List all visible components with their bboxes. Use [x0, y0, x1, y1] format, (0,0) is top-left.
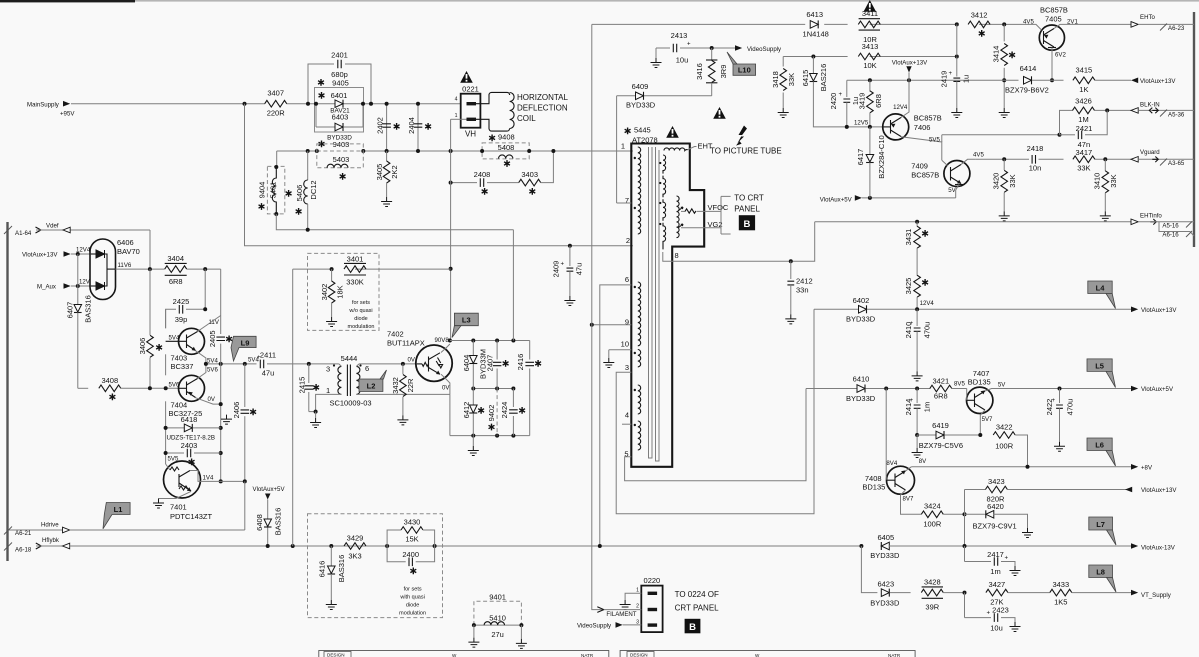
svg-text:2421: 2421: [1076, 124, 1093, 133]
svg-text:M_Aux: M_Aux: [37, 284, 56, 291]
svg-text:3: 3: [326, 365, 330, 374]
svg-text:2405: 2405: [208, 330, 217, 347]
svg-text:4V5: 4V5: [973, 152, 984, 159]
capacitor 2425 39p: [166, 269, 220, 328]
inductor 5406 / DC12: [295, 151, 318, 230]
svg-text:2406: 2406: [232, 402, 241, 419]
svg-text:6413: 6413: [806, 10, 823, 19]
node Hdrive input: [4, 521, 245, 537]
diode 6412: [462, 389, 484, 436]
svg-text:2409: 2409: [552, 261, 561, 278]
svg-text:1: 1: [455, 113, 458, 119]
svg-text:VH: VH: [465, 130, 476, 139]
svg-text:220R: 220R: [267, 109, 286, 118]
ground snubber: [468, 436, 479, 456]
wire flyback node vertical (VH pin1 to 7402 collector): [450, 119, 452, 340]
resistor 3410 33K: [1093, 159, 1119, 221]
svg-text:BZX79-B6V2: BZX79-B6V2: [1005, 86, 1049, 95]
resistor 3431: [904, 222, 928, 276]
node VlotAux-13V out: [1131, 543, 1176, 551]
capacitor 2402: [376, 104, 400, 151]
svg-text:47n: 47n: [1078, 140, 1091, 149]
capacitor 2415: [298, 362, 320, 412]
svg-text:DESIGN: DESIGN: [630, 653, 648, 657]
svg-text:BLK-IN: BLK-IN: [1140, 102, 1160, 109]
wire x=244.8 vertical to Hdrive: [244, 481, 246, 530]
resistor 3424 100R: [921, 502, 964, 529]
svg-text:33K: 33K: [787, 73, 796, 86]
svg-text:10: 10: [621, 340, 629, 349]
wire snubber top rail: [450, 340, 530, 342]
svg-text:2417: 2417: [987, 550, 1004, 559]
svg-text:3414: 3414: [992, 46, 1001, 63]
svg-text:VideoSupply: VideoSupply: [577, 623, 612, 630]
flag L10: [727, 52, 756, 75]
svg-text:+8V: +8V: [1141, 465, 1153, 472]
svg-text:Hdrive: Hdrive: [41, 521, 59, 528]
svg-text:2K2: 2K2: [390, 165, 399, 178]
svg-text:VlotAux+5V: VlotAux+5V: [820, 196, 853, 203]
svg-text:FILAMENT: FILAMENT: [606, 611, 636, 618]
flag L2: [359, 370, 387, 392]
bottom table 1: [319, 651, 609, 657]
svg-text:W: W: [452, 653, 457, 657]
diode 6404 BYD33M: [462, 341, 488, 389]
node VlotAux+13V out: [1131, 78, 1176, 86]
svg-text:0V: 0V: [208, 396, 216, 403]
svg-text:9405: 9405: [332, 79, 349, 88]
svg-text:6410: 6410: [853, 375, 870, 384]
svg-text:5V5: 5V5: [929, 137, 940, 144]
node Vguard: [1131, 149, 1194, 167]
svg-text:for sets: for sets: [404, 587, 422, 593]
svg-text:6412: 6412: [462, 402, 471, 419]
diode 6413 1N4148: [803, 10, 829, 39]
inductor 5408 (dashed box): [480, 143, 531, 167]
svg-text:1: 1: [326, 386, 330, 395]
capacitor 2420 1u: [829, 80, 860, 127]
svg-text:VlotAux-13V: VlotAux-13V: [1141, 545, 1176, 552]
svg-text:1: 1: [636, 588, 639, 594]
svg-text:8: 8: [675, 251, 679, 260]
svg-text:VlotAux+5V: VlotAux+5V: [253, 486, 286, 493]
node +8V out: [919, 458, 1153, 471]
svg-text:3404: 3404: [167, 254, 184, 263]
svg-text:7405: 7405: [1045, 15, 1062, 24]
svg-text:CRT PANEL: CRT PANEL: [675, 604, 720, 613]
svg-text:1m: 1m: [990, 567, 1000, 576]
wire 3401 rail: [293, 268, 333, 270]
svg-text:VlotAux+13V: VlotAux+13V: [1141, 307, 1177, 314]
node VlotAux+13V inject: [892, 60, 928, 81]
svg-text:7409: 7409: [911, 162, 928, 171]
svg-text:B: B: [743, 219, 750, 230]
svg-text:BYD33D: BYD33D: [846, 314, 876, 323]
resistor 3404 6R8: [165, 254, 187, 286]
svg-text:2420: 2420: [829, 93, 838, 110]
node B+ junction: [243, 102, 247, 106]
svg-text:BC337: BC337: [171, 362, 194, 371]
flag L1: [103, 503, 130, 529]
node Hflybk input: [4, 537, 861, 553]
svg-text:330K: 330K: [346, 278, 364, 287]
wire pin9 row: [592, 324, 632, 326]
svg-text:Vdef: Vdef: [46, 223, 59, 230]
svg-text:3418: 3418: [771, 71, 780, 88]
resistor 3416 3R9: [695, 48, 728, 96]
svg-text:2403: 2403: [181, 441, 198, 450]
svg-text:3426: 3426: [1075, 97, 1092, 106]
svg-text:47u: 47u: [575, 263, 584, 276]
svg-text:w/o quasi: w/o quasi: [348, 308, 372, 314]
svg-text:Hflybk: Hflybk: [42, 537, 60, 544]
resistor 3413 10K: [858, 42, 880, 70]
svg-text:6418: 6418: [181, 415, 198, 424]
svg-text:2423: 2423: [992, 606, 1009, 615]
svg-text:L5: L5: [1095, 361, 1104, 370]
svg-text:2: 2: [636, 604, 639, 610]
capacitor 2407: [486, 341, 509, 389]
svg-text:6416: 6416: [318, 561, 327, 578]
svg-text:3R9: 3R9: [719, 65, 728, 79]
core lines: [649, 147, 660, 461]
resistor 3433 1K5: [1050, 580, 1131, 607]
resistor 3414: [992, 24, 1016, 117]
resistor 3427 27K: [986, 580, 1050, 607]
wire Vdef vertical: [149, 230, 151, 269]
warning triangle mid: [713, 107, 726, 119]
wire emitter rail x=220.7 down: [220, 364, 222, 482]
resistor 3405 2K2: [375, 151, 399, 207]
svg-text:33K: 33K: [1109, 174, 1118, 187]
svg-text:L3: L3: [462, 316, 471, 325]
diode 6410 BYD33D: [806, 375, 931, 404]
svg-text:W: W: [755, 653, 760, 657]
svg-text:3431: 3431: [904, 229, 913, 246]
capacitor 2421 47n: [1060, 110, 1108, 139]
connector 0220: [636, 576, 662, 632]
svg-text:A6-16: A6-16: [1162, 232, 1179, 239]
svg-text:modulation: modulation: [399, 611, 426, 617]
capacitor 2410 470u: [904, 309, 932, 381]
node VlotAux+5V out: [1131, 386, 1174, 394]
capacitor 2406: [232, 364, 256, 482]
wire emitter to bottom rail: [449, 394, 451, 435]
resistor 3421 6R8: [930, 377, 967, 401]
svg-text:A1-64: A1-64: [15, 230, 32, 237]
svg-text:5445: 5445: [634, 126, 651, 135]
node VlotAux+5V mid: [820, 195, 956, 203]
node VideoSupply to pin3: [577, 622, 641, 629]
transistor 7401 PDTC143ZT: [153, 461, 245, 521]
svg-text:3420: 3420: [992, 173, 1001, 190]
diode 6408 BAS316: [255, 508, 283, 536]
svg-text:BAS316: BAS316: [337, 555, 346, 583]
primary winding bumps: [638, 147, 641, 450]
svg-text:6423: 6423: [877, 580, 894, 589]
svg-text:9403: 9403: [333, 140, 350, 149]
svg-text:A6-23: A6-23: [1168, 25, 1185, 32]
svg-text:7406: 7406: [914, 123, 931, 132]
resistor 3408: [78, 376, 179, 400]
svg-text:5V7: 5V7: [982, 416, 993, 423]
svg-text:9408: 9408: [498, 133, 515, 142]
diode 6409 BYD33D: [617, 82, 712, 110]
svg-text:3424: 3424: [924, 502, 941, 511]
svg-text:VideoSupply: VideoSupply: [747, 46, 782, 53]
svg-text:8V4: 8V4: [886, 460, 897, 467]
diode 6403 BYD33D lower: [316, 104, 363, 149]
svg-text:BC857B: BC857B: [914, 114, 942, 123]
box for sets with quasi diode modulation: [308, 514, 443, 618]
svg-text:5V6: 5V6: [207, 367, 218, 374]
svg-text:3425: 3425: [904, 278, 913, 295]
svg-text:L1: L1: [114, 505, 123, 514]
svg-text:3432: 3432: [391, 377, 400, 394]
warning triangle above 0221: [460, 71, 473, 83]
svg-text:VFOC: VFOC: [708, 203, 729, 212]
svg-text:3412: 3412: [971, 11, 988, 20]
flag L4: [1088, 281, 1116, 309]
diode 6406 BAV70: [90, 238, 140, 300]
svg-text:2424: 2424: [500, 402, 509, 419]
svg-text:BC857B: BC857B: [911, 171, 939, 180]
svg-text:PDTC143ZT: PDTC143ZT: [170, 512, 213, 521]
left border bar: [6, 222, 8, 561]
svg-text:12V: 12V: [79, 278, 91, 285]
svg-text:0V: 0V: [408, 357, 416, 364]
svg-text:diode: diode: [406, 603, 419, 609]
wire top rail y=24.4: [592, 23, 805, 25]
wire base rail x=165.6: [165, 309, 167, 328]
wire snubber middle rail: [473, 388, 513, 390]
wire 5444 pin6 to base: [359, 363, 417, 365]
svg-text:A5-16: A5-16: [1162, 222, 1179, 229]
svg-text:2413: 2413: [671, 31, 688, 40]
capacitor 2424: [500, 389, 525, 436]
diode 6416 BAS316: [318, 544, 347, 610]
svg-text:BYD33D: BYD33D: [846, 394, 876, 403]
wire EW feed vertical x=513.4: [512, 230, 514, 341]
capacitor 2423 10u: [965, 593, 1021, 633]
node VlotAux+5V tap: [253, 486, 286, 546]
svg-text:L9: L9: [241, 338, 250, 347]
svg-text:4V5: 4V5: [1023, 19, 1034, 26]
capacitor 2404: [407, 104, 431, 151]
svg-text:5403: 5403: [333, 155, 350, 164]
node VlotAux+13V input: [22, 246, 91, 258]
svg-text:TO CRT: TO CRT: [734, 194, 764, 203]
flag L9: [231, 336, 256, 361]
note w/o quasi: [348, 300, 375, 330]
wire pin6 down to Hflybk: [600, 285, 632, 546]
svg-text:470u: 470u: [1066, 399, 1075, 416]
diode 6401 BAV21 (dashed box): [315, 88, 364, 133]
svg-text:BAS316: BAS316: [274, 508, 283, 536]
node EHTo: [1131, 14, 1194, 32]
svg-text:10u: 10u: [676, 56, 689, 65]
svg-text:TO PICTURE TUBE: TO PICTURE TUBE: [710, 147, 782, 156]
svg-text:6403: 6403: [332, 113, 349, 122]
resistor 3407: [265, 89, 287, 118]
svg-text:2402: 2402: [376, 117, 385, 134]
svg-text:2411: 2411: [260, 351, 276, 360]
capacitor 2405: [208, 269, 232, 364]
svg-text:+: +: [561, 261, 565, 268]
resistor 3417 33K: [1073, 140, 1095, 173]
capacitor 2411 47u: [248, 351, 339, 378]
svg-text:3410: 3410: [1093, 173, 1102, 190]
svg-text:7408: 7408: [865, 474, 882, 483]
svg-text:BZX79-C9V1: BZX79-C9V1: [973, 521, 1017, 530]
svg-text:1m: 1m: [923, 402, 932, 412]
svg-text:1M: 1M: [1078, 115, 1088, 124]
node FILAMENT: [597, 607, 641, 618]
svg-text:15K: 15K: [405, 535, 418, 544]
svg-text:EHTinfo: EHTinfo: [1140, 212, 1162, 219]
svg-text:PANEL: PANEL: [734, 205, 760, 214]
svg-text:3433: 3433: [1052, 580, 1069, 589]
svg-text:VlotAux+13V: VlotAux+13V: [1141, 487, 1177, 494]
svg-text:12V4: 12V4: [893, 104, 908, 111]
capacitor 2408 / resistor 3403 branch: [451, 151, 554, 195]
spark gap 9402 (dashed): [487, 389, 497, 436]
svg-text:BYD33D: BYD33D: [870, 551, 900, 560]
capacitor 2418 10n: [1027, 144, 1044, 173]
transformer 5444 SC10009-03: [309, 354, 372, 428]
svg-text:6409: 6409: [632, 82, 649, 91]
transistor 7408 BD135: [862, 389, 921, 515]
svg-text:6407: 6407: [66, 302, 75, 319]
svg-text:33K: 33K: [1008, 174, 1017, 187]
capacitor 2414 1m: [904, 389, 932, 436]
svg-text:6414: 6414: [1020, 64, 1037, 73]
svg-text:8V: 8V: [919, 458, 927, 465]
resistor 3419 6R8: [858, 80, 884, 127]
svg-text:3427: 3427: [989, 580, 1006, 589]
svg-text:diode: diode: [354, 316, 367, 322]
svg-text:1K: 1K: [1079, 85, 1088, 94]
svg-text:3408: 3408: [101, 376, 118, 385]
wire L9 row y=363.9: [206, 363, 257, 365]
transistor 7405 BC857B: [1023, 6, 1131, 81]
svg-text:9404: 9404: [258, 182, 267, 199]
label 5445 AT2078: [625, 126, 658, 145]
svg-text:1V4: 1V4: [203, 475, 214, 482]
svg-text:A6-18: A6-18: [15, 546, 32, 553]
svg-text:11V6: 11V6: [118, 262, 132, 269]
svg-text:for sets: for sets: [352, 300, 370, 306]
svg-text:VT_Supply: VT_Supply: [1141, 592, 1172, 599]
diode 6415 BAS216: [801, 57, 847, 127]
wire EHTinfo/filament vertical: [592, 24, 604, 609]
svg-text:6V2: 6V2: [1055, 52, 1066, 59]
svg-text:8V5: 8V5: [954, 381, 965, 388]
diode 6417 BZX284-C10: [856, 127, 886, 198]
svg-text:3: 3: [625, 363, 629, 372]
svg-text:5V6: 5V6: [169, 382, 180, 389]
horizontal deflection coil: [476, 92, 569, 141]
diode 6419 BZX79-C5V6: [912, 421, 981, 458]
resistor 3420 33K: [992, 159, 1018, 221]
svg-text:HORIZONTAL: HORIZONTAL: [517, 93, 569, 102]
wire 6409 column vertical: [616, 96, 618, 203]
svg-text:3423: 3423: [988, 477, 1005, 486]
wire 2418 row: [975, 158, 1029, 160]
svg-text:27u: 27u: [491, 630, 504, 639]
svg-text:+: +: [987, 610, 991, 617]
svg-text:3401: 3401: [347, 255, 364, 264]
svg-text:6R8: 6R8: [874, 94, 883, 108]
svg-text:+: +: [1052, 397, 1056, 404]
svg-text:9402: 9402: [487, 405, 496, 422]
svg-text:6406: 6406: [117, 238, 134, 247]
capacitor 2403: [166, 441, 221, 465]
svg-text:BUT11APX: BUT11APX: [387, 339, 425, 348]
svg-text:7: 7: [625, 196, 629, 205]
resistor 3428 39R: [921, 578, 964, 612]
resistor 3401 330K: [344, 255, 366, 287]
svg-text:L4: L4: [1096, 284, 1106, 293]
flag L7: [1089, 517, 1116, 545]
svg-text:2V1: 2V1: [1067, 19, 1078, 26]
node VT_Supply out: [1131, 590, 1172, 599]
svg-text:10n: 10n: [1029, 164, 1042, 173]
svg-text:18K: 18K: [336, 285, 345, 298]
svg-text:MainSupply: MainSupply: [27, 102, 60, 109]
svg-text:VlotAux+13V: VlotAux+13V: [892, 60, 928, 67]
inductor 5401 / 9404 (dashed box): [258, 151, 514, 230]
wire pin8 row: [663, 222, 815, 261]
transistor 7409 BC857B: [911, 152, 984, 198]
svg-text:3402: 3402: [320, 284, 329, 301]
wire +8V row: [911, 466, 1131, 468]
svg-text:with quasi: with quasi: [399, 595, 424, 601]
node collector 90V8: [448, 339, 452, 343]
svg-text:L8: L8: [1096, 568, 1105, 577]
inductor 5410 27u: [468, 614, 527, 649]
svg-text:modulation: modulation: [348, 324, 375, 330]
svg-text:6405: 6405: [877, 533, 894, 542]
svg-text:3429: 3429: [347, 534, 364, 543]
capacitor 2422 470u: [1045, 389, 1075, 452]
svg-text:6404: 6404: [462, 355, 471, 372]
svg-text:6R8: 6R8: [169, 277, 183, 286]
svg-text:5V: 5V: [948, 187, 956, 194]
svg-text:12V5: 12V5: [854, 120, 869, 127]
svg-text:TO 0224 OF: TO 0224 OF: [675, 590, 719, 599]
svg-text:2408: 2408: [474, 170, 491, 179]
node Vdef: [4, 223, 150, 238]
svg-text:SC10009-03: SC10009-03: [329, 399, 371, 408]
svg-text:2407: 2407: [486, 355, 495, 372]
svg-text:6408: 6408: [255, 514, 264, 531]
svg-text:BAS216: BAS216: [819, 64, 828, 92]
svg-text:1u: 1u: [962, 75, 971, 83]
capacitor 2419 1u: [940, 24, 971, 117]
focus winding / VFOC VG2 taps: [677, 194, 764, 238]
capacitor 2417 1m: [965, 546, 1021, 576]
secondary phase dots: [659, 162, 661, 225]
svg-text:5V4: 5V4: [169, 335, 180, 342]
svg-text:6419: 6419: [932, 421, 949, 430]
svg-text:B: B: [689, 622, 696, 633]
svg-text:1: 1: [621, 142, 625, 151]
wire pin7 to 6409 column: [617, 202, 632, 204]
svg-text:+: +: [910, 320, 914, 327]
svg-text:3421: 3421: [932, 377, 949, 386]
label TO 0224 OF CRT PANEL: [675, 590, 720, 634]
